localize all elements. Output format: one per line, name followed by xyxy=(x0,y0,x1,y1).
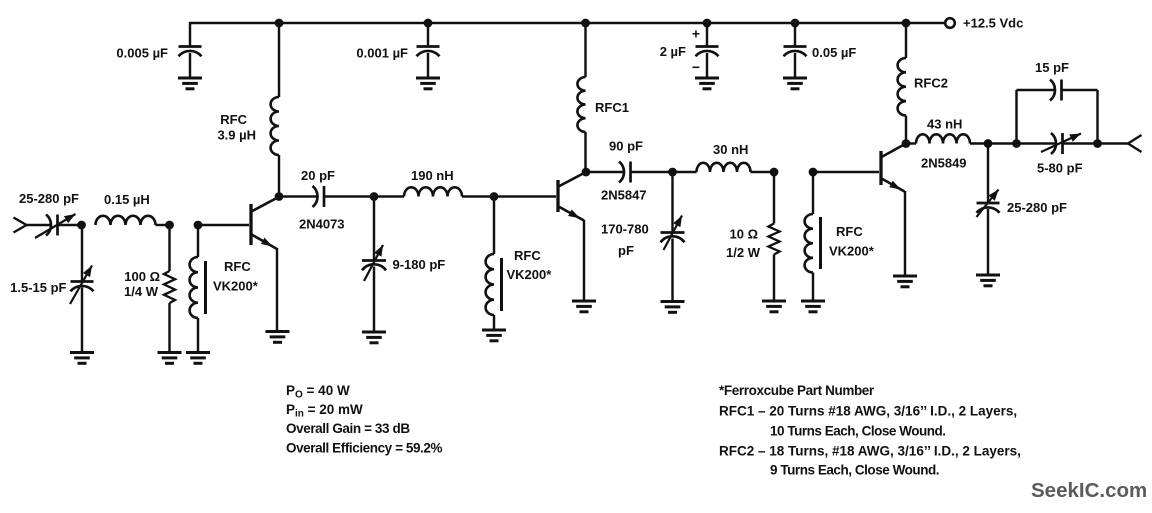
svg-text:+12.5 Vdc: +12.5 Vdc xyxy=(963,16,1023,31)
terminal +12.5 Vdc xyxy=(945,18,955,28)
node E junction xyxy=(490,192,499,201)
svg-text:RFC2 – 18 Turns, #18 AWG, 3/16: RFC2 – 18 Turns, #18 AWG, 3/16’’ I.D., 2… xyxy=(719,444,1021,459)
wire L5 to node I xyxy=(970,142,988,144)
node A input junction xyxy=(77,221,86,230)
svg-text:100 Ω: 100 Ω xyxy=(124,269,160,284)
wire node E to Q2 base xyxy=(494,195,556,197)
capacitor C5 20 pF xyxy=(313,186,318,207)
inductor RFC4 VK200 coil xyxy=(486,254,494,315)
wire top +12.5V rail xyxy=(190,22,945,24)
svg-text:0.001 µF: 0.001 µF xyxy=(356,46,408,61)
wire node A to CV2 xyxy=(81,225,83,282)
wire node G to R2 xyxy=(773,172,775,224)
transistor Q3 2N5849 base bar xyxy=(879,151,882,185)
inductor L4 30 nH xyxy=(697,163,751,172)
wire node B to R1 xyxy=(168,225,170,271)
wire input to CV1 xyxy=(27,224,51,226)
node rail-C4 junction xyxy=(791,19,800,28)
wire L4 to node G xyxy=(751,171,775,173)
ground CV5 xyxy=(976,275,1000,286)
inductor RFC1 coil xyxy=(577,77,585,132)
svg-text:Pin = 20 mW: Pin = 20 mW xyxy=(286,402,363,420)
wire CV1 to node A xyxy=(58,224,82,226)
ground C4 xyxy=(783,78,807,89)
transistor Q3 collector lead xyxy=(882,144,907,158)
capacitor CV3 9-180 pF variable xyxy=(362,259,386,262)
wire rail drop to C1 xyxy=(189,22,191,47)
input port arrow xyxy=(14,218,27,233)
node G junction xyxy=(770,168,779,177)
capacitor CV5 25-280 pF variable xyxy=(977,202,1000,205)
svg-text:Overall Efficiency = 59.2%: Overall Efficiency = 59.2% xyxy=(286,441,442,456)
svg-text:30 nH: 30 nH xyxy=(713,142,748,157)
transistor Q1 emitter lead xyxy=(252,235,278,250)
node Q2 collector junction xyxy=(582,168,591,177)
svg-text:9 Turns Each, Close Wound.: 9 Turns Each, Close Wound. xyxy=(770,463,939,478)
arrow CV5 variable xyxy=(977,190,999,218)
svg-text:90 pF: 90 pF xyxy=(609,139,643,154)
wire node J up xyxy=(1015,90,1017,144)
node rail-RFC1 junction xyxy=(581,19,590,28)
svg-text:SeekIC.com: SeekIC.com xyxy=(1031,479,1147,502)
wire CV3 to ground xyxy=(373,267,375,333)
svg-text:RFC: RFC xyxy=(224,259,251,274)
inductor RFC3 VK200 coil xyxy=(190,257,198,318)
output port arrow xyxy=(1128,135,1142,152)
wire RFC3 to ground xyxy=(197,318,199,353)
wire C1 to ground xyxy=(189,53,191,78)
wire node H to Q3 base xyxy=(813,171,879,173)
wire C4 drop xyxy=(794,23,796,47)
wire Q3 emitter to ground xyxy=(904,191,906,276)
wire node D to L3 xyxy=(374,195,404,197)
wire RFC4 to ground xyxy=(493,315,495,330)
svg-text:190 nH: 190 nH xyxy=(411,168,454,183)
svg-text:0.15 µH: 0.15 µH xyxy=(104,192,150,207)
transistor Q2 emitter lead xyxy=(559,207,585,221)
svg-text:2 µF: 2 µF xyxy=(660,44,686,59)
svg-text:1/2 W: 1/2 W xyxy=(726,245,761,260)
transistor Q1 collector lead xyxy=(252,197,280,212)
node C junction xyxy=(194,221,203,230)
node Q3 collector junction xyxy=(902,139,911,148)
inductor L1 RFC 3.9 µH coil xyxy=(271,97,279,155)
wire node J to CV6 xyxy=(1017,142,1056,144)
resistor R1 100 Ω xyxy=(164,271,175,303)
wire Q2 emitter to ground xyxy=(583,220,585,301)
wire Q1 collector to C5 xyxy=(279,195,317,197)
wire RFC1 to Q2 collector xyxy=(584,132,586,172)
ground CV3 xyxy=(362,332,386,343)
wire L2 to node B xyxy=(156,224,170,226)
inductor L5 43 nH xyxy=(916,134,970,143)
ground CV2 xyxy=(70,353,94,364)
ground R1 xyxy=(158,353,182,364)
transistor Q2 2N5847 base bar xyxy=(556,180,559,212)
wire rail to RFC1 xyxy=(584,23,586,77)
svg-text:25-280 pF: 25-280 pF xyxy=(1007,200,1067,215)
node J junction xyxy=(1012,139,1021,148)
wire R1 to ground xyxy=(168,303,170,353)
capacitor C4 0.05 µF xyxy=(784,45,807,48)
wire RFC2 to Q3 collector xyxy=(905,116,907,144)
wire node C to RFC3 xyxy=(197,225,199,257)
node I junction xyxy=(984,139,993,148)
arrow CV4 variable xyxy=(664,216,683,251)
svg-text:170-780: 170-780 xyxy=(601,222,649,237)
svg-text:9-180 pF: 9-180 pF xyxy=(393,257,446,272)
wire rail to RFC2 xyxy=(905,23,907,58)
ground RFC5 xyxy=(801,301,825,312)
wire node E to RFC4 xyxy=(493,197,495,255)
transistor Q3 emitter lead xyxy=(882,179,905,192)
wire R2 to ground xyxy=(773,255,775,302)
capacitor C6 90 pF xyxy=(619,162,624,183)
capacitor C7 15 pF xyxy=(1050,80,1055,101)
svg-text:VK200*: VK200* xyxy=(213,279,259,294)
svg-text:Overall Gain = 33 dB: Overall Gain = 33 dB xyxy=(286,421,410,436)
wire C3 to ground xyxy=(706,53,708,78)
arrow CV3 variable xyxy=(364,245,383,281)
node F junction xyxy=(668,168,677,177)
wire Q2 collector to C6 xyxy=(586,171,624,173)
wire CV5 to ground xyxy=(987,209,989,275)
wire C5 to node D xyxy=(324,195,374,197)
wire C3 drop xyxy=(706,23,708,47)
core bar RFC4 xyxy=(500,258,503,311)
node rail-RFC3.9µH junction xyxy=(275,19,284,28)
svg-text:5-80 pF: 5-80 pF xyxy=(1037,161,1083,176)
ground RFC3 xyxy=(186,353,210,364)
wire C2 drop xyxy=(427,23,429,47)
svg-text:2N5847: 2N5847 xyxy=(601,188,647,203)
wire top branch down xyxy=(1096,90,1098,144)
capacitor C2 0.001 µF xyxy=(417,45,440,48)
svg-text:PO = 40 W: PO = 40 W xyxy=(286,383,350,401)
svg-text:*Ferroxcube Part Number: *Ferroxcube Part Number xyxy=(719,383,875,398)
ground Q3 emitter xyxy=(893,276,917,287)
capacitor CV4 170-780 pF variable xyxy=(661,231,685,234)
arrow CV6 variable xyxy=(1041,134,1081,153)
svg-text:0.05 µF: 0.05 µF xyxy=(812,45,856,60)
svg-text:10 Turns Each, Close Wound.: 10 Turns Each, Close Wound. xyxy=(770,424,946,439)
wire node I to CV5 xyxy=(987,144,989,204)
svg-text:RFC: RFC xyxy=(220,112,247,127)
wire node K to output xyxy=(1098,142,1129,144)
svg-text:RFC: RFC xyxy=(836,224,863,239)
transistor Q2 collector lead xyxy=(559,172,587,187)
node B junction xyxy=(165,221,174,230)
capacitor CV1 25-280 pF variable series xyxy=(46,215,51,236)
ground C1 xyxy=(178,78,202,89)
inductor RFC2 coil xyxy=(898,58,906,116)
svg-text:3.9 µH: 3.9 µH xyxy=(217,128,256,143)
svg-text:1/4 W: 1/4 W xyxy=(124,284,159,299)
inductor RFC5 VK200 coil xyxy=(805,214,813,272)
wire CV6 to node K xyxy=(1063,142,1098,144)
svg-text:VK200*: VK200* xyxy=(829,244,875,259)
inductor L2 0.15 µH xyxy=(96,216,156,225)
wire CV4 to ground xyxy=(671,239,673,302)
node K junction xyxy=(1093,139,1102,148)
wire Q1 emitter to ground xyxy=(276,248,278,332)
svg-text:1.5-15 pF: 1.5-15 pF xyxy=(10,280,66,295)
svg-text:25-280 pF: 25-280 pF xyxy=(19,191,79,206)
svg-text:VK200*: VK200* xyxy=(507,267,553,282)
node rail-C3 junction xyxy=(703,19,712,28)
svg-text:pF: pF xyxy=(618,243,634,258)
ground Q2 emitter xyxy=(572,301,596,312)
svg-text:2N5849: 2N5849 xyxy=(921,156,967,171)
transistor Q1 2N4073 base bar xyxy=(249,204,252,245)
svg-text:RFC: RFC xyxy=(514,248,541,263)
svg-text:RFC1 – 20 Turns #18 AWG, 3/16’: RFC1 – 20 Turns #18 AWG, 3/16’’ I.D., 2 … xyxy=(719,404,1017,419)
ground C3 xyxy=(695,78,719,89)
svg-text:RFC1: RFC1 xyxy=(595,100,629,115)
node D junction xyxy=(370,192,379,201)
wire CV2 to ground xyxy=(81,288,83,353)
ground R2 xyxy=(762,301,786,312)
svg-text:20 pF: 20 pF xyxy=(301,168,335,183)
node Q1 collector junction xyxy=(275,192,284,201)
wire node F to L4 xyxy=(673,171,697,173)
ground Q1 emitter xyxy=(266,332,290,343)
node H junction xyxy=(809,168,818,177)
wire node D to CV3 xyxy=(373,197,375,261)
svg-text:−: − xyxy=(692,59,700,75)
inductor L3 190 nH xyxy=(404,187,462,196)
arrow CV2 variable xyxy=(70,266,92,305)
wire C6 to node F xyxy=(631,171,673,173)
wire top branch left xyxy=(1017,89,1055,91)
wire L1 to Q1 collector xyxy=(278,155,280,197)
ground CV4 xyxy=(661,302,685,313)
wire node I to node J xyxy=(988,142,1017,144)
wire RFC5 to ground xyxy=(812,273,814,302)
ground C2 xyxy=(416,78,440,89)
svg-text:15 pF: 15 pF xyxy=(1035,60,1069,75)
svg-text:RFC2: RFC2 xyxy=(914,76,948,91)
capacitor CV6 5-80 pF variable series xyxy=(1051,133,1056,154)
wire node F to CV4 xyxy=(671,172,673,233)
wire node C to Q1 base xyxy=(198,224,249,226)
core bar RFC5 xyxy=(819,217,822,269)
svg-text:+: + xyxy=(692,26,700,42)
wire C2 to ground xyxy=(427,53,429,78)
wire Q3 collector to L5 xyxy=(906,142,916,144)
node rail-RFC2 junction xyxy=(902,19,911,28)
svg-text:10 Ω: 10 Ω xyxy=(730,227,759,242)
wire node H to RFC5 xyxy=(812,172,814,214)
arrow CV1 variable xyxy=(35,214,76,238)
capacitor CV2 1.5-15 pF variable xyxy=(71,280,94,283)
core bar RFC3 xyxy=(204,261,207,314)
wire top branch right xyxy=(1062,89,1098,91)
capacitor C1 0.005 µF xyxy=(179,45,202,48)
node rail-C2 junction xyxy=(424,19,433,28)
wire C4 to ground xyxy=(794,53,796,78)
resistor R2 10 Ω xyxy=(768,224,779,255)
wire L3 to node E xyxy=(462,195,494,197)
svg-text:0.005 µF: 0.005 µF xyxy=(116,46,168,61)
svg-text:2N4073: 2N4073 xyxy=(299,217,345,232)
svg-text:43 nH: 43 nH xyxy=(927,117,962,132)
ground RFC4 xyxy=(482,330,506,341)
capacitor C3 2 µF polarized xyxy=(696,45,719,48)
wire rail to L1 xyxy=(278,23,280,97)
